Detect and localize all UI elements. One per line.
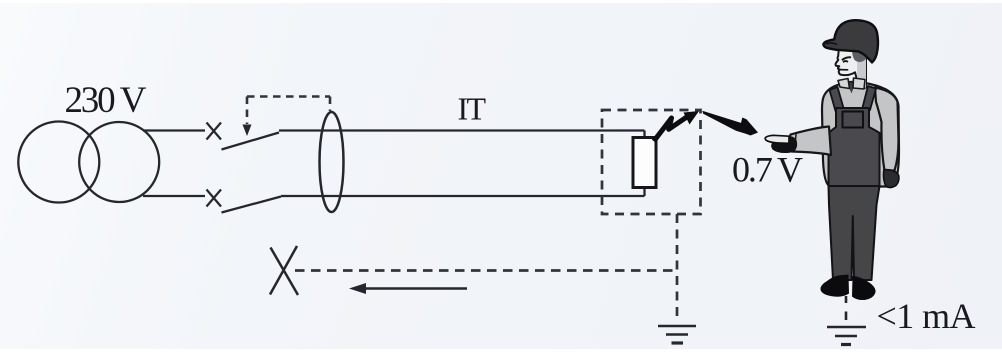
ground symbol person earth xyxy=(827,327,866,345)
wire resistor top connection xyxy=(643,131,645,139)
lightning bolt left xyxy=(654,111,699,141)
left shoe xyxy=(820,275,849,297)
svg-text:230 V: 230 V xyxy=(65,80,147,121)
collar shadow xyxy=(847,83,856,94)
hand fist xyxy=(771,137,797,154)
neck shading xyxy=(857,58,866,88)
bib pocket xyxy=(843,112,864,128)
right hand glove xyxy=(884,170,899,188)
right shoe xyxy=(852,276,876,300)
ground symbol installation earth xyxy=(658,326,696,343)
resistor (insulation fault) xyxy=(633,138,656,188)
visor edge xyxy=(827,43,837,44)
svg-text:IT: IT xyxy=(458,91,487,127)
contact cross top xyxy=(207,123,222,140)
current direction arrow xyxy=(349,283,467,294)
collar right xyxy=(853,78,865,89)
right arm sleeve xyxy=(875,88,899,171)
sleeve cuff fold xyxy=(795,135,797,152)
ear shadow under helmet xyxy=(852,50,866,62)
trip linkage dashed lines xyxy=(247,97,330,125)
extended arm sleeve xyxy=(790,127,831,156)
lightning bolt right xyxy=(702,111,758,136)
fault dashed box xyxy=(602,110,701,214)
switch blade top xyxy=(222,133,280,150)
collar left xyxy=(838,79,850,89)
wire L2 switch to fault box xyxy=(281,195,645,197)
wire L2 source to contact xyxy=(143,195,205,197)
eyebrow xyxy=(841,56,851,61)
eye xyxy=(844,60,848,63)
svg-text:<1 mA: <1 mA xyxy=(877,296,976,336)
earth return dashed horizontal xyxy=(295,269,677,272)
wire resistor bottom connection xyxy=(643,187,645,196)
switch blade bottom xyxy=(222,197,282,213)
current transformer toroid xyxy=(320,112,344,212)
torso shirt xyxy=(822,82,899,187)
index finger xyxy=(765,135,789,143)
trip arrow head xyxy=(243,125,252,137)
hard hat xyxy=(823,20,878,62)
contact cross bottom xyxy=(207,190,222,207)
overall strap right xyxy=(863,86,877,110)
break cross X xyxy=(270,246,298,295)
overall strap left xyxy=(830,87,844,111)
mouth xyxy=(839,69,848,71)
bib overalls xyxy=(829,108,880,187)
person earth dashed link xyxy=(845,296,848,320)
wire L1 source to contact xyxy=(143,129,205,131)
neck and face xyxy=(836,49,867,89)
earth conductor dashed vertical xyxy=(676,214,679,318)
person (worker) xyxy=(765,20,899,300)
wire L1 switch to fault box xyxy=(279,129,645,131)
transformer source circle right xyxy=(79,122,159,202)
transformer source circle left xyxy=(18,122,99,203)
svg-text:0.7 V: 0.7 V xyxy=(732,150,803,190)
trousers xyxy=(829,186,880,280)
